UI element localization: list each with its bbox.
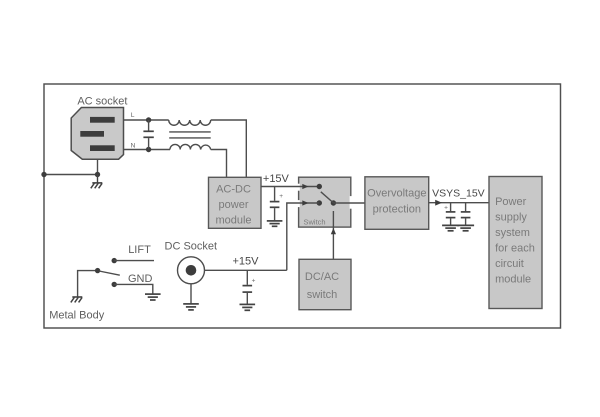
svg-text:+15V: +15V: [263, 173, 290, 185]
switch S2 GND contact: [112, 282, 117, 287]
net label +15V (DC input): [233, 256, 260, 268]
switch lever: [321, 192, 334, 203]
svg-text:Switch: Switch: [304, 217, 326, 226]
capacitor C2 (VSYS bulk, polarized): [444, 203, 455, 225]
AC socket J1: [71, 108, 123, 160]
chassis ground (AC socket): [91, 175, 103, 189]
wire: AC socket earth stub: [97, 159, 99, 174]
AC socket label: [77, 96, 127, 108]
Overvoltage protection box U3: [365, 177, 429, 230]
svg-text:system: system: [495, 227, 530, 239]
svg-text:N: N: [131, 142, 136, 149]
capacitor CX across L-N: [143, 120, 153, 150]
wire: DC socket to +15V rail: [205, 269, 287, 271]
arrowhead into switch (top input): [302, 184, 308, 189]
wire: AC-DC output to switch: [261, 186, 319, 188]
wire: earth to metal body frame: [44, 174, 98, 176]
svg-text:+15V: +15V: [233, 256, 260, 268]
ground (GND terminal): [145, 294, 161, 300]
svg-text:module: module: [495, 274, 531, 286]
wire: L line socket to choke: [124, 119, 169, 121]
wire: L line choke to AC-DC module: [211, 120, 247, 177]
svg-text:circuit: circuit: [495, 258, 524, 270]
wire: N line choke to AC-DC module: [211, 150, 227, 178]
node: L junction: [146, 117, 151, 122]
svg-text:GND: GND: [128, 273, 153, 285]
svg-text:DC Socket: DC Socket: [165, 240, 218, 252]
svg-text:Metal Body: Metal Body: [49, 310, 105, 322]
svg-text:VSYS_15V: VSYS_15V: [432, 187, 485, 199]
Switch box S1: [299, 177, 351, 227]
svg-text:+: +: [279, 193, 283, 200]
switch contact top: [317, 184, 322, 189]
wire: DC/AC switch control line: [332, 211, 334, 259]
AC-DC power module U1: [209, 177, 262, 228]
ground (DC socket): [183, 304, 199, 310]
common-mode choke L1 core: [169, 132, 211, 138]
GND label: [128, 273, 153, 285]
net label +15V (AC-DC output): [263, 173, 290, 185]
capacitor C4 (DC input bulk, polarized): [243, 270, 256, 304]
svg-text:protection: protection: [373, 204, 421, 216]
arrowhead into switch (bottom input): [302, 200, 308, 205]
arrowhead on VSYS wire: [435, 200, 442, 206]
switch S2 lever: [99, 271, 120, 275]
svg-text:for each: for each: [495, 243, 535, 255]
capacitor C1 (+15V bulk, polarized): [270, 187, 284, 221]
node: frame junction: [41, 172, 46, 177]
chassis ground (metal body): [71, 297, 83, 302]
svg-text:AC-DC: AC-DC: [216, 183, 251, 195]
LIFT label: [128, 244, 151, 256]
svg-text:module: module: [215, 214, 251, 226]
wire: DC socket ground stub: [190, 284, 192, 304]
metal body boundary frame: [44, 84, 561, 328]
svg-text:DC/AC: DC/AC: [305, 271, 339, 283]
switch common pole: [331, 200, 336, 205]
node: socket earth junction: [95, 172, 100, 177]
ground (C2): [442, 225, 459, 230]
Power supply system box U4: [489, 177, 542, 309]
DC socket J2: [178, 257, 205, 284]
svg-text:+: +: [252, 278, 256, 285]
svg-text:power: power: [219, 199, 249, 211]
DC/AC switch box U2: [299, 259, 351, 309]
wire: N line socket to choke: [124, 149, 171, 151]
node: N junction: [146, 147, 151, 152]
svg-text:+: +: [444, 205, 448, 212]
capacitor C3 (VSYS ceramic): [461, 203, 471, 225]
Metal Body label: [49, 310, 105, 322]
ground-lift switch S2 common wire: [78, 271, 98, 297]
ground (C4): [240, 304, 256, 310]
wire: DC +15V rail up to switch (bottom input): [287, 203, 320, 270]
svg-text:Overvoltage: Overvoltage: [367, 187, 426, 199]
node label L: [131, 112, 135, 119]
wire: overvoltage output to power supply box: [429, 202, 489, 204]
svg-text:AC socket: AC socket: [77, 96, 127, 108]
wire: GND contact to earth: [114, 284, 153, 293]
switch S2 LIFT contact: [112, 258, 117, 263]
switch S2 common pole: [95, 268, 100, 273]
arrowhead up into switch box: [331, 228, 336, 234]
svg-text:LIFT: LIFT: [128, 244, 151, 256]
wire: LIFT open terminal: [114, 260, 154, 262]
ground (C1): [267, 221, 283, 226]
svg-text:L: L: [131, 112, 135, 119]
net label VSYS_15V: [432, 187, 485, 199]
common-mode choke L1 bottom winding: [170, 144, 211, 149]
common-mode choke L1 top winding: [169, 120, 211, 125]
svg-text:switch: switch: [307, 289, 338, 301]
svg-text:Power: Power: [495, 196, 527, 208]
node label N: [131, 142, 136, 149]
switch contact bottom: [317, 200, 322, 205]
ground (C3): [457, 225, 474, 230]
DC Socket label: [165, 240, 218, 252]
svg-text:supply: supply: [495, 212, 527, 224]
wire: switch output to overvoltage protection: [333, 202, 365, 204]
